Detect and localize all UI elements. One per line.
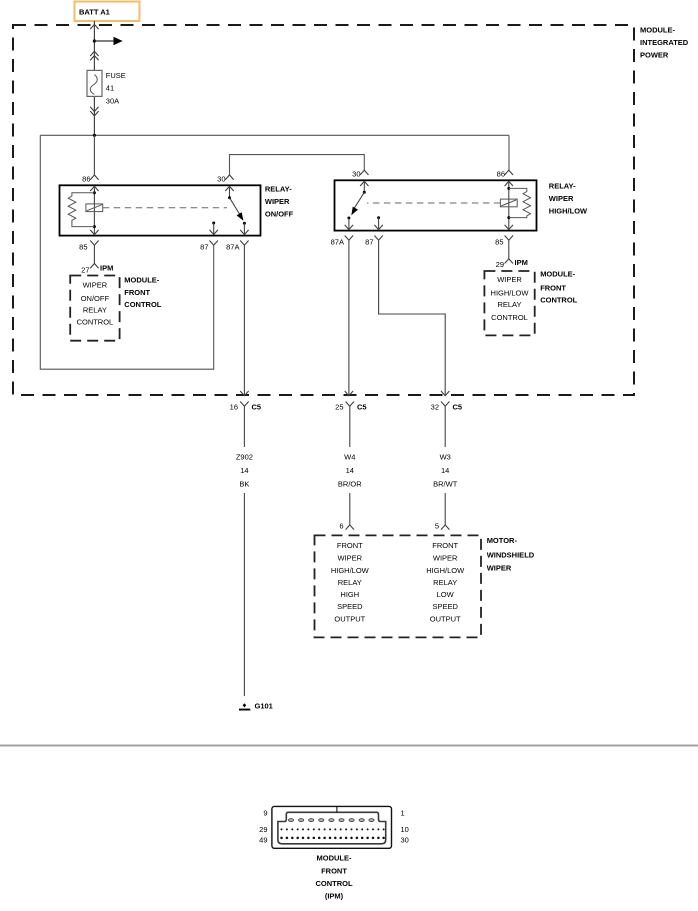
svg-text:BK: BK [239, 479, 249, 488]
svg-text:87A: 87A [331, 238, 344, 247]
svg-text:25: 25 [335, 403, 343, 412]
svg-text:WIPER: WIPER [265, 197, 290, 206]
svg-text:5: 5 [435, 522, 439, 531]
svg-text:LOW: LOW [437, 590, 455, 599]
svg-text:14: 14 [441, 466, 449, 475]
svg-text:HIGH: HIGH [340, 590, 359, 599]
svg-text:WIPER: WIPER [487, 564, 512, 573]
svg-text:WIPER: WIPER [497, 275, 522, 284]
svg-text:WIPER: WIPER [433, 554, 458, 563]
svg-text:SPEED: SPEED [432, 602, 458, 611]
svg-text:49: 49 [259, 836, 267, 845]
svg-text:MOTOR-: MOTOR- [487, 536, 518, 545]
svg-text:OUTPUT: OUTPUT [430, 614, 461, 623]
svg-text:RELAY-: RELAY- [549, 182, 576, 191]
svg-text:30: 30 [352, 170, 360, 179]
svg-text:41: 41 [106, 84, 114, 93]
svg-text:87A: 87A [226, 243, 239, 252]
svg-text:C5: C5 [357, 403, 367, 412]
svg-text:14: 14 [346, 466, 354, 475]
svg-text:RELAY: RELAY [497, 300, 521, 309]
svg-text:OUTPUT: OUTPUT [334, 614, 365, 623]
svg-text:BR/OR: BR/OR [338, 479, 362, 488]
svg-text:CONTROL: CONTROL [77, 317, 114, 326]
svg-text:29: 29 [496, 260, 504, 269]
svg-text:RELAY: RELAY [338, 578, 362, 587]
svg-text:ON/OFF: ON/OFF [81, 294, 110, 303]
svg-text:HIGH/LOW: HIGH/LOW [549, 207, 588, 216]
svg-text:IPM: IPM [515, 258, 528, 267]
svg-text:WIPER: WIPER [338, 554, 363, 563]
svg-text:FRONT: FRONT [124, 288, 150, 297]
svg-text:MODULE-: MODULE- [124, 275, 159, 284]
svg-text:MODULE-: MODULE- [640, 26, 675, 35]
svg-text:CONTROL: CONTROL [124, 300, 161, 309]
svg-text:27: 27 [81, 266, 89, 275]
svg-text:W3: W3 [440, 453, 451, 462]
svg-text:CONTROL: CONTROL [491, 313, 528, 322]
svg-text:HIGH/LOW: HIGH/LOW [331, 566, 370, 575]
svg-text:10: 10 [401, 825, 409, 834]
svg-text:86: 86 [497, 170, 505, 179]
svg-text:HIGH/LOW: HIGH/LOW [426, 566, 465, 575]
svg-text:CONTROL: CONTROL [315, 879, 352, 888]
svg-text:BATT A1: BATT A1 [79, 8, 110, 17]
svg-text:BR/WT: BR/WT [433, 479, 458, 488]
svg-text:FUSE: FUSE [106, 71, 126, 80]
svg-text:85: 85 [79, 243, 87, 252]
svg-text:14: 14 [240, 466, 248, 475]
svg-text:WINDSHIELD: WINDSHIELD [487, 550, 535, 559]
svg-text:Z902: Z902 [236, 453, 253, 462]
svg-text:ON/OFF: ON/OFF [265, 210, 294, 219]
svg-text:WIPER: WIPER [549, 194, 574, 203]
svg-text:29: 29 [259, 825, 267, 834]
svg-text:MODULE-: MODULE- [317, 853, 352, 862]
svg-text:WIPER: WIPER [83, 280, 108, 289]
svg-text:CONTROL: CONTROL [540, 296, 577, 305]
svg-text:9: 9 [263, 809, 267, 818]
svg-text:86: 86 [82, 175, 90, 184]
svg-text:FRONT: FRONT [337, 541, 363, 550]
svg-text:30A: 30A [106, 97, 119, 106]
svg-text:FRONT: FRONT [432, 541, 458, 550]
svg-text:30: 30 [217, 175, 225, 184]
svg-text:FRONT: FRONT [540, 283, 566, 292]
svg-text:MODULE-: MODULE- [540, 270, 575, 279]
svg-text:87: 87 [365, 238, 373, 247]
svg-text:1: 1 [401, 809, 405, 818]
svg-text:(IPM): (IPM) [325, 892, 344, 901]
svg-text:C5: C5 [252, 403, 262, 412]
svg-text:FRONT: FRONT [321, 867, 347, 876]
svg-text:RELAY: RELAY [83, 306, 107, 315]
svg-text:HIGH/LOW: HIGH/LOW [491, 288, 530, 297]
svg-text:6: 6 [339, 522, 343, 531]
svg-text:POWER: POWER [640, 51, 669, 60]
svg-text:RELAY-: RELAY- [265, 185, 292, 194]
svg-text:INTEGRATED: INTEGRATED [640, 38, 689, 47]
svg-text:C5: C5 [453, 403, 463, 412]
svg-text:87: 87 [200, 243, 208, 252]
svg-text:G101: G101 [255, 702, 273, 711]
svg-text:SPEED: SPEED [337, 602, 363, 611]
svg-text:85: 85 [495, 238, 503, 247]
svg-text:32: 32 [431, 403, 439, 412]
svg-text:RELAY: RELAY [433, 578, 457, 587]
svg-text:16: 16 [230, 403, 238, 412]
svg-text:30: 30 [401, 836, 409, 845]
svg-text:W4: W4 [344, 453, 355, 462]
svg-text:IPM: IPM [100, 264, 113, 273]
